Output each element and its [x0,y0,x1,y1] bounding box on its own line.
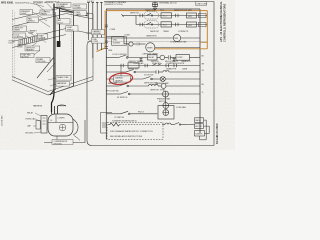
overload circle [160,55,165,60]
label freezer light [20,10,33,15]
orange right drop [206,11,208,49]
leader lines upper labels [26,3,63,40]
lower cabinet label boxes [56,76,71,87]
wire loop right of compressor [73,119,78,135]
FF fan motor circle [163,91,169,97]
light switch rung [106,111,157,114]
line cord plug symbol at top [152,2,157,11]
thermostat switch [119,55,127,58]
orange bus top [106,10,207,12]
main wire harness vertical [52,4,55,113]
drop to lamp label [120,66,122,77]
riser receptacle to compressor rung [127,44,129,58]
label air duct [57,19,70,24]
red highlight ellipse [109,72,133,86]
label grommet right [92,30,105,35]
heater coil bumps [149,84,159,86]
parallel fan branch [158,97,200,119]
compressor rung [106,55,200,61]
lower label leaders [48,78,56,86]
freezer shelf edges [12,29,93,48]
cabinet left front edge dotted [11,10,13,80]
label evap fan motor [21,53,35,58]
extra label below shelf [36,58,50,64]
black bus line L1 top [106,8,200,10]
top border of schematic sheet [104,1,214,3]
bottom ground wire [44,120,85,143]
right rail N [199,9,201,133]
compressor body [48,114,73,136]
wire to bottom corner [50,90,54,95]
between panels labels [92,30,106,44]
leader from part number [30,3,44,7]
wire drop to shelf left [37,57,54,78]
cabinet lamp rung [106,77,200,82]
compressor circle cross [60,125,65,130]
secondary harness vertical [59,9,61,41]
compressor inner circle [59,124,66,131]
label defrost heater pictorial [25,46,40,51]
harness junction blob [57,41,61,47]
freezer fan rung [106,91,200,97]
supply cord wires [87,3,102,59]
defrost heater rung [106,84,200,89]
harness twin line [55,12,57,90]
wire color codes at right rail [202,56,206,95]
defrost timer circle [146,43,200,52]
compressor interior divider [55,114,57,122]
jog from rail to receptacle [106,37,145,47]
TD contact rung 1 [136,12,207,19]
label light shield [66,26,78,31]
cabinet bottom edges [12,77,93,96]
compressor detail left labels [25,112,36,135]
timer motor circle [173,34,180,41]
faint crossing line of panel top [101,41,207,43]
label defrost timer pictorial [13,26,27,31]
cabinet top edges [12,8,93,27]
harness to top right [54,7,88,16]
compressor to ground box wire [56,136,58,140]
leaders compressor labels [33,113,41,133]
relay box [148,55,158,60]
evap hatch band [19,35,42,46]
icemaker dashed box [107,122,163,139]
label box in red ellipse [114,76,131,83]
small capacitor box [36,121,40,130]
label cold control pictorial [13,33,26,38]
label line cord right [92,38,106,44]
timer motor rung [106,34,200,41]
inner panel box above bottom border [101,113,113,134]
shelf label row [9,34,48,59]
compressor box [176,55,190,61]
bottom border of schematic sheet [92,145,214,147]
left rail L1 [105,9,107,139]
compressor interior line [48,122,73,124]
left rail connector marks upper [105,25,108,48]
connector drop symbols on compressor rung [139,58,175,63]
auxiliary contact rung [106,63,200,68]
left rounded border of lower panel [87,42,101,146]
run capacitor [169,55,171,59]
icemaker dashed rung [108,123,186,127]
right bottom component boxes [186,118,209,140]
orange tick at N rail [200,41,207,43]
receptacle circle [129,42,133,46]
wire drop short [47,63,55,72]
label control panel [40,10,53,15]
leader lines shelf labels [24,39,46,55]
leaders for right labels [86,32,92,42]
TD stub from bus [122,14,137,24]
label hinge cover [73,4,87,9]
orange left rail segment [97,11,106,52]
wire to bottom right [74,136,80,141]
terminal board box at rail [112,37,127,45]
relay box left of compressor [41,116,47,134]
pictorial label boxes upper [13,1,87,39]
orange highlighted circuit path [97,11,208,52]
butter conditioner rung [106,70,200,74]
harness to back edge [60,11,89,14]
cabinet back right edge [92,14,94,80]
orange rung defrost-timer to N [155,48,207,50]
cabinet right front edge [73,11,75,86]
label top right [196,2,208,6]
right margin rotated text upper [219,1,227,42]
label icemaker box top right [57,3,71,8]
label evap cover [38,34,48,39]
label fan shield [27,17,39,22]
label top cord clamp [74,11,87,16]
cabinet right front edge dotted twin [70,13,72,85]
label compressor bottom [52,140,73,145]
right border of schematic sheet [213,2,215,146]
TD contact rung 2 [136,21,207,28]
wires into compressor [52,104,67,114]
second dotted edge [14,12,16,79]
